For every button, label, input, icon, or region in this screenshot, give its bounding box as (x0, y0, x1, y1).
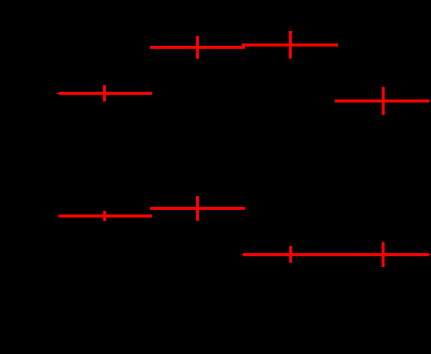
data point P2 y-error bar (289, 31, 292, 59)
data point P3 x-error bar left nub (57, 93, 59, 94)
data point P1 x-error bar (150, 46, 245, 49)
data point P3 y-error bar (103, 85, 106, 102)
data point P6 y-error bar (103, 211, 106, 221)
data point P8 y-error bar (382, 242, 385, 267)
data point P2 y-error bar top-right nub (291, 32, 292, 34)
data point P5 y-error bar (196, 196, 199, 221)
bottom x-error bar right nub (429, 254, 431, 255)
data point P7 y-error bar (289, 246, 292, 263)
data points P7 and P8 combined x-error bar (243, 253, 429, 256)
data point P4 y-error bar (382, 87, 385, 115)
data point P2 x-error bar (242, 44, 338, 47)
data point P3 x-error bar (59, 92, 152, 95)
data point P5 x-error bar (150, 207, 245, 210)
data point P6 x-error bar (58, 215, 152, 218)
data point P1 y-error bar (196, 36, 199, 59)
bottom x-error bar left nub (242, 254, 244, 255)
data point P4 x-error bar (335, 100, 430, 103)
